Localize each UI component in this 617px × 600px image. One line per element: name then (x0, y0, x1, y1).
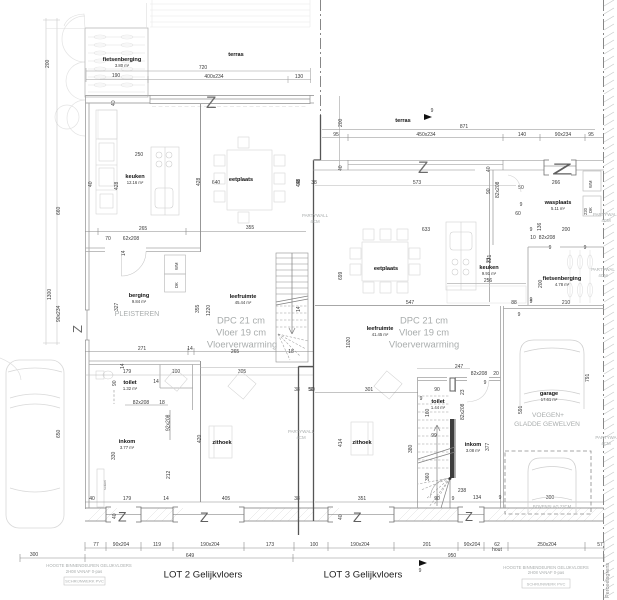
svg-text:200: 200 (562, 227, 571, 233)
svg-text:40: 40 (88, 181, 94, 187)
svg-text:1220: 1220 (206, 305, 212, 316)
svg-text:PARTYWALL: PARTYWALL (288, 429, 315, 434)
svg-text:448: 448 (296, 178, 302, 187)
LOT2 left wall (86, 95, 90, 509)
svg-text:179: 179 (123, 369, 132, 375)
LOT3 top window 450x234 (348, 160, 503, 170)
svg-text:4CM: 4CM (598, 273, 608, 278)
svg-text:DPC 21 cm: DPC 21 cm (217, 315, 265, 326)
svg-text:330: 330 (111, 451, 117, 460)
svg-text:Z: Z (418, 158, 428, 177)
svg-text:9: 9 (420, 396, 423, 402)
svg-text:77: 77 (93, 542, 99, 548)
svg-text:400x234: 400x234 (204, 74, 223, 80)
svg-text:9: 9 (549, 245, 552, 251)
left dim labels (45, 59, 62, 438)
north arrow bottom (419, 560, 427, 566)
svg-text:250: 250 (135, 152, 144, 158)
svg-text:18: 18 (159, 400, 165, 406)
svg-text:640: 640 (212, 180, 221, 186)
svg-text:265: 265 (139, 226, 148, 232)
svg-text:1.32 m²: 1.32 m² (123, 386, 138, 391)
svg-text:Vloer 19 cm: Vloer 19 cm (216, 327, 266, 338)
svg-text:99: 99 (431, 433, 437, 439)
svg-text:405: 405 (222, 496, 231, 502)
svg-text:Vloer 19 cm: Vloer 19 cm (399, 327, 449, 338)
svg-text:62x208: 62x208 (123, 236, 140, 242)
svg-text:301: 301 (365, 387, 374, 393)
svg-text:9: 9 (584, 245, 587, 251)
svg-text:650: 650 (56, 429, 62, 438)
LOT2 dim line 265/355 (85, 228, 306, 235)
svg-text:Vloerverwarming: Vloerverwarming (389, 339, 459, 350)
LOT2 top window 400x234 (150, 95, 310, 104)
svg-text:134: 134 (473, 495, 482, 501)
svg-text:9: 9 (419, 568, 422, 574)
svg-text:GLADDE GEWELVEN: GLADDE GEWELVEN (514, 421, 580, 428)
wasplaats appliances (583, 171, 601, 216)
DPC note LOT2 (207, 315, 277, 350)
svg-text:90x234: 90x234 (555, 132, 572, 138)
svg-text:265: 265 (231, 349, 240, 355)
svg-text:420: 420 (197, 434, 203, 443)
svg-text:247: 247 (455, 364, 464, 370)
svg-text:60: 60 (515, 211, 521, 217)
svg-text:3.08 m²: 3.08 m² (466, 448, 481, 453)
LOT2 berging north wall (85, 248, 200, 252)
svg-text:300: 300 (30, 552, 39, 558)
fietsenberging LOT2 label (100, 57, 142, 106)
partywall notes (288, 213, 329, 440)
left wall window 90x234 (85, 310, 90, 340)
svg-text:173: 173 (266, 542, 275, 548)
svg-text:82x208: 82x208 (495, 181, 501, 198)
LOT2 eetplaats table (214, 137, 285, 223)
svg-text:95: 95 (333, 132, 339, 138)
svg-text:160: 160 (425, 408, 431, 417)
LOT2 toilet walls (89, 361, 200, 410)
svg-text:377: 377 (485, 442, 491, 451)
svg-text:95: 95 (588, 132, 594, 138)
svg-text:2H08 VANAF 0-pas: 2H08 VANAF 0-pas (66, 569, 102, 574)
svg-text:SCHRIJNWERK PVC: SCHRIJNWERK PVC (527, 582, 566, 587)
svg-text:220: 220 (583, 207, 588, 215)
svg-text:82x208: 82x208 (539, 235, 556, 241)
svg-text:70: 70 (105, 236, 111, 242)
LOT3 keuken counter bottom (447, 284, 526, 304)
svg-text:Z: Z (465, 509, 473, 524)
svg-text:300: 300 (546, 495, 555, 501)
svg-text:BOVENSLAG 22CM: BOVENSLAG 22CM (533, 504, 572, 509)
svg-text:17.61 m²: 17.61 m² (541, 397, 558, 402)
bottom window 190x204 LOT3 (328, 507, 394, 522)
car parked left (6, 360, 64, 528)
terras LOT2 dim lines (86, 68, 311, 83)
svg-text:sokkel: sokkel (103, 480, 107, 490)
svg-text:660: 660 (56, 206, 62, 215)
svg-text:PLEISTEREN: PLEISTEREN (115, 309, 160, 318)
DPC note LOT3 (389, 315, 459, 350)
svg-text:547: 547 (406, 300, 415, 306)
svg-text:terras: terras (395, 118, 411, 124)
svg-text:2H08 VANAF 0-pas: 2H08 VANAF 0-pas (528, 570, 564, 575)
toilet door dark jamb (450, 378, 455, 391)
totals row (20, 554, 604, 562)
svg-text:LOT 2 Gelijkvloers: LOT 2 Gelijkvloers (164, 570, 243, 581)
svg-text:9.84 m²: 9.84 m² (132, 299, 147, 304)
LOT3 zithoek (351, 371, 402, 455)
toilet fixture (96, 371, 113, 379)
svg-text:14: 14 (121, 250, 127, 256)
bottom window 90x204 LOT3 (458, 507, 484, 522)
LOT3 eetplaats (350, 229, 420, 293)
svg-text:9: 9 (530, 227, 533, 233)
svg-text:190x204: 190x204 (350, 542, 369, 548)
tree circles left (55, 16, 85, 136)
svg-text:3.80 m²: 3.80 m² (115, 63, 130, 68)
svg-text:428: 428 (114, 181, 120, 190)
svg-text:200: 200 (338, 118, 344, 127)
svg-text:eetplaats: eetplaats (229, 177, 253, 183)
svg-text:360: 360 (425, 472, 431, 481)
bottom window 90x204 LOT2 (106, 507, 141, 522)
door arc fietsenberging (64, 14, 85, 28)
partywall note right (591, 212, 617, 446)
svg-text:90: 90 (486, 188, 492, 194)
svg-text:699: 699 (338, 271, 344, 280)
svg-text:90: 90 (112, 380, 118, 386)
svg-text:649: 649 (186, 553, 195, 559)
inkom north wall (456, 378, 501, 381)
bikes LOT3 (568, 250, 593, 303)
svg-text:210: 210 (562, 300, 571, 306)
svg-text:82x208: 82x208 (471, 371, 488, 377)
svg-text:271: 271 (138, 346, 147, 352)
svg-text:633: 633 (422, 227, 431, 233)
svg-text:179: 179 (123, 496, 132, 502)
svg-text:9: 9 (431, 108, 434, 114)
svg-text:90: 90 (434, 387, 440, 393)
svg-text:82x208: 82x208 (133, 400, 150, 406)
svg-text:57: 57 (597, 542, 603, 548)
wasplaats door arc (508, 175, 521, 192)
VOEGEN note (514, 412, 580, 428)
toilet door (114, 390, 168, 405)
svg-text:355: 355 (195, 304, 201, 313)
svg-text:Z: Z (353, 509, 362, 525)
svg-text:573: 573 (413, 180, 422, 186)
svg-text:9: 9 (520, 202, 523, 208)
svg-text:VOEGEN+: VOEGEN+ (532, 412, 564, 419)
svg-text:5.11 m²: 5.11 m² (551, 206, 565, 211)
inkom door line (169, 410, 171, 440)
svg-text:10: 10 (530, 235, 536, 241)
LOT2 zithoek furniture (165, 369, 256, 458)
svg-text:41.45 m²: 41.45 m² (372, 332, 389, 337)
LOT2 stairs (276, 253, 308, 362)
svg-text:PARTYWALL: PARTYWALL (593, 212, 617, 217)
right plot hatch band (604, 0, 614, 598)
svg-text:Z: Z (206, 93, 216, 112)
svg-text:450x234: 450x234 (416, 132, 435, 138)
svg-text:200: 200 (538, 279, 544, 288)
note block left (46, 563, 132, 574)
svg-text:14: 14 (153, 379, 159, 385)
svg-text:9: 9 (499, 495, 502, 501)
svg-text:zithoek: zithoek (352, 440, 372, 446)
LOT3 top wall (314, 161, 605, 171)
svg-text:321: 321 (487, 254, 493, 263)
svg-text:90x234: 90x234 (56, 305, 62, 322)
svg-text:50: 50 (309, 387, 315, 393)
svg-text:351: 351 (358, 496, 367, 502)
svg-text:140: 140 (518, 132, 527, 138)
svg-text:4CM: 4CM (601, 441, 611, 446)
svg-text:40: 40 (338, 514, 344, 520)
LOT2 dim 271/14/265 row (85, 348, 314, 355)
svg-text:201: 201 (423, 542, 432, 548)
svg-text:90x204: 90x204 (464, 542, 481, 548)
svg-text:250x204: 250x204 (537, 542, 556, 548)
stair diagonals + rail LOT3 (418, 425, 455, 508)
stair dark stringer (450, 419, 455, 478)
svg-text:45.44 m²: 45.44 m² (235, 300, 252, 305)
stair break line + rail (276, 253, 308, 334)
fietsenberging LOT2 box (85, 28, 148, 97)
svg-text:18: 18 (288, 349, 294, 355)
svg-text:1020: 1020 (346, 337, 352, 348)
svg-text:190: 190 (112, 73, 121, 79)
svg-text:9: 9 (530, 299, 533, 305)
car in garage slab (528, 458, 576, 514)
centre lot boundary dash-dot (320, 0, 322, 118)
svg-text:720: 720 (199, 65, 208, 71)
svg-text:4.78 m²: 4.78 m² (555, 282, 570, 287)
svg-text:14: 14 (187, 346, 193, 352)
svg-text:PARTYWAL: PARTYWAL (591, 267, 615, 272)
right boundary line (verkavelingsgrens) (603, 0, 605, 600)
svg-text:9: 9 (484, 380, 487, 386)
LOT3 toilet walls (418, 377, 456, 508)
step box below fietsenberging (98, 110, 117, 139)
svg-text:355: 355 (246, 225, 255, 231)
svg-text:PARTYWA: PARTYWA (595, 435, 616, 440)
svg-text:92x208: 92x208 (166, 414, 172, 431)
svg-text:zithoek: zithoek (212, 440, 232, 446)
bikes in fietsenberging LOT2 (88, 35, 145, 92)
north arrow LOT3 (424, 114, 432, 120)
svg-text:SCHRIJNWERK PVC: SCHRIJNWERK PVC (65, 579, 104, 584)
svg-text:266: 266 (552, 180, 561, 186)
svg-text:1.44 m²: 1.44 m² (431, 405, 446, 410)
svg-text:Z: Z (118, 509, 127, 525)
LOT3 terras dim lines (322, 130, 603, 142)
svg-text:88: 88 (511, 300, 517, 306)
svg-text:130: 130 (295, 74, 304, 80)
svg-text:414: 414 (338, 438, 344, 447)
LOT3 stairs (418, 396, 450, 507)
svg-text:WM: WM (174, 262, 179, 270)
svg-text:4CM: 4CM (601, 218, 611, 223)
terras LOT2 labels and dims (199, 52, 304, 80)
terras paving top (150, 0, 310, 27)
svg-text:40: 40 (486, 166, 492, 172)
svg-text:591: 591 (518, 405, 524, 414)
svg-text:428: 428 (196, 177, 202, 186)
wasplaats window Z 90x234 (544, 160, 576, 175)
svg-text:4CM: 4CM (296, 435, 306, 440)
svg-text:20: 20 (493, 371, 499, 377)
svg-text:Vloerverwarming: Vloerverwarming (207, 339, 277, 350)
fietsenberging LOT3 walls (518, 247, 604, 306)
partywall dark (299, 115, 321, 535)
svg-text:90x204: 90x204 (113, 542, 130, 548)
svg-text:871: 871 (460, 124, 469, 130)
LOT2 keuken labels (88, 152, 220, 190)
svg-text:119: 119 (153, 542, 161, 548)
svg-text:PARTYWALL: PARTYWALL (302, 213, 329, 218)
svg-text:380: 380 (408, 444, 414, 453)
svg-text:256: 256 (484, 278, 493, 284)
svg-text:136: 136 (537, 222, 543, 231)
small arc bottom-left (0, 358, 21, 380)
bottom dimension row all (85, 542, 604, 551)
svg-text:38: 38 (311, 180, 317, 186)
LOT3 keuken island (446, 222, 476, 290)
LOT3 dim line 547 (315, 305, 490, 307)
garage slab dashed (505, 451, 591, 514)
svg-text:9: 9 (452, 496, 455, 502)
svg-text:hout: hout (492, 547, 502, 553)
svg-text:LOT 3 Gelijkvloers: LOT 3 Gelijkvloers (324, 570, 403, 581)
LOT3 interior wall keuken/wasplaats (490, 170, 494, 302)
svg-text:212: 212 (166, 470, 172, 479)
svg-text:200: 200 (45, 59, 51, 68)
garage car (520, 340, 584, 409)
svg-text:Z: Z (200, 509, 209, 525)
note block right (503, 565, 589, 575)
LOT3 garage north wall (501, 306, 605, 508)
svg-text:DK: DK (174, 282, 179, 288)
svg-text:9: 9 (518, 312, 521, 318)
svg-text:14: 14 (296, 306, 302, 312)
svg-text:14: 14 (163, 496, 169, 502)
svg-text:190x204: 190x204 (200, 542, 219, 548)
svg-text:100: 100 (310, 542, 319, 548)
left dimension chain (43, 18, 60, 345)
berging door arc (122, 252, 147, 277)
svg-text:950: 950 (448, 553, 457, 559)
svg-text:40: 40 (89, 496, 95, 502)
svg-text:12.16 m²: 12.16 m² (127, 180, 144, 185)
svg-text:Z: Z (552, 160, 573, 178)
LOT2 vertical reference line (200, 104, 202, 502)
svg-text:WM: WM (588, 180, 593, 188)
svg-text:Z: Z (70, 325, 85, 333)
svg-text:4CM: 4CM (310, 219, 320, 224)
LOT2/LOT3 bottom wall faces (85, 508, 604, 521)
svg-text:1300: 1300 (47, 289, 53, 300)
svg-text:HOOGTE BINNENDEUREN GELIJKVLOE: HOOGTE BINNENDEUREN GELIJKVLOERS (46, 563, 132, 568)
LOT2 kitchen island (151, 147, 179, 215)
svg-text:23: 23 (460, 389, 466, 395)
svg-text:terras: terras (228, 52, 244, 58)
front step (97, 469, 104, 507)
svg-text:eetplaats: eetplaats (374, 266, 398, 272)
LOT3 terras vertical dim (339, 96, 341, 170)
svg-text:DPC 21 cm: DPC 21 cm (400, 315, 448, 326)
LOT2 kitchen counter left (96, 110, 117, 214)
bottom window 190x204 LOT2 (173, 507, 244, 522)
LOT2 top wall (85, 96, 314, 104)
svg-text:238: 238 (458, 488, 467, 494)
svg-text:90: 90 (434, 496, 440, 502)
LOT2 WM DK boxes (165, 255, 186, 292)
svg-text:9.91 m²: 9.91 m² (482, 271, 497, 276)
svg-text:Perceelsgrens: Perceelsgrens (605, 563, 611, 598)
svg-text:3.77 m²: 3.77 m² (120, 445, 135, 450)
svg-text:82x208: 82x208 (460, 403, 466, 420)
svg-text:791: 791 (585, 373, 591, 382)
bottom wall hatch LOT2+LOT3 (88, 508, 604, 521)
svg-text:40: 40 (112, 513, 118, 519)
